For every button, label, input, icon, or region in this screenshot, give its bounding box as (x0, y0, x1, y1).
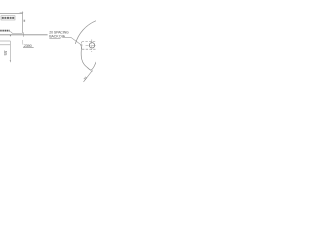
rim leader line (84, 71, 93, 82)
svg-text:BACK DIA: BACK DIA (49, 34, 65, 38)
body bottom edge (12, 32, 23, 34)
step curve (10, 32, 13, 34)
rim leader arrowhead (91, 70, 93, 72)
tab top edge (0, 40, 10, 42)
extension line (9, 41, 11, 62)
shaft circle (89, 43, 94, 48)
body top edge (0, 12, 23, 14)
hidden slot left cap (81, 42, 82, 49)
body right edge (22, 12, 24, 34)
lower hatch band (0, 30, 10, 32)
leader hook (21, 40, 24, 45)
extension line end arrow (10, 60, 11, 62)
dim tick at baseline (22, 32, 24, 36)
tab bottom edge (0, 44, 10, 46)
note leader arrowhead (80, 44, 81, 45)
small mark label (24, 20, 26, 22)
horizontal centerline (86, 44, 97, 46)
front-view body outline (81, 45, 96, 71)
hidden slot bottom (82, 48, 97, 50)
down arrow at baseline (10, 35, 12, 37)
phantom arc (75, 21, 96, 44)
terminal block outline (1, 16, 15, 20)
dim text underline (23, 47, 34, 49)
hidden slot top (82, 41, 97, 43)
panel baseline (0, 34, 48, 36)
note underline (49, 37, 60, 39)
terminal block hatch (2, 17, 15, 19)
svg-text:.55: .55 (3, 50, 8, 56)
top-right tick (20, 11, 24, 13)
note leader (63, 37, 81, 45)
vertical centerline (91, 39, 93, 52)
